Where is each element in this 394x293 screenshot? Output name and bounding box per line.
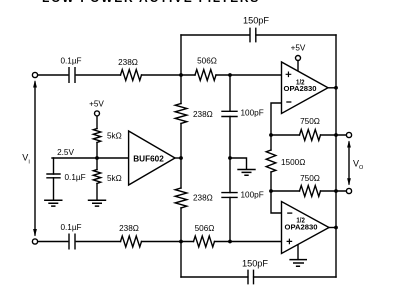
- svg-text:LOW POWER ACTIVE FILTERS: LOW POWER ACTIVE FILTERS: [42, 0, 260, 5]
- wire bottom rail: [181, 276, 336, 278]
- wire U2 inverting input: [271, 191, 282, 213]
- resistor 238 ohm vertical lower: [175, 188, 187, 208]
- junction lower feedback right: [334, 189, 338, 193]
- resistor 5k ohm upper: [93, 129, 100, 143]
- svg-text:150pF: 150pF: [243, 16, 269, 26]
- junction x181 bottom row: [179, 240, 183, 244]
- label U1 plus: [286, 72, 292, 78]
- svg-text:+5V: +5V: [291, 44, 306, 53]
- wire right output vertical x=336: [335, 35, 337, 277]
- svg-text:VI: VI: [22, 153, 30, 166]
- svg-text:OPA2830: OPA2830: [285, 223, 318, 232]
- wire 5k branch vertical: [96, 116, 98, 200]
- junction BUF602 output: [179, 156, 183, 160]
- terminal input bottom: [32, 239, 37, 244]
- resistor 750 ohm lower: [300, 186, 321, 197]
- wire upper feedback row: [271, 134, 346, 136]
- terminal input top: [32, 72, 37, 77]
- svg-text:238Ω: 238Ω: [118, 58, 138, 67]
- svg-text:BUF602: BUF602: [133, 154, 164, 164]
- capacitor C 0.1uF bottom: [69, 234, 75, 249]
- capacitor C 150pF bottom: [248, 270, 254, 283]
- resistor 238 ohm vertical upper: [175, 104, 187, 124]
- wire second ladder vertical x=230: [229, 75, 231, 242]
- capacitor C 150pF top: [250, 28, 256, 41]
- wire U2 ground stem: [297, 245, 299, 260]
- wire center node ground stub: [230, 158, 247, 169]
- op-amp U1 triangle: [282, 62, 329, 114]
- terminal +5V BUF602: [95, 111, 100, 116]
- junction 5k divider: [95, 156, 99, 160]
- wire U1 inverting feedback: [271, 103, 282, 135]
- label U2 minus: [287, 212, 292, 214]
- wire BUF602 output: [175, 157, 181, 159]
- resistor 1500 ohm: [266, 150, 276, 172]
- svg-text:2.5V: 2.5V: [57, 148, 74, 157]
- wire Vo span line: [348, 142, 350, 184]
- wire 0.1uF bypass vertical: [53, 158, 55, 200]
- terminal Vo lower: [346, 188, 351, 193]
- svg-text:OPA2830: OPA2830: [284, 84, 317, 93]
- junction U2 output: [334, 226, 338, 230]
- ground U2: [289, 260, 307, 267]
- resistor 750 ohm upper: [300, 130, 321, 141]
- svg-text:+5V: +5V: [89, 100, 104, 109]
- arrowhead Vi down: [33, 229, 37, 237]
- junction center node: [228, 156, 232, 160]
- svg-text:0.1µF: 0.1µF: [60, 223, 81, 232]
- junction x230 bottom row: [228, 240, 232, 244]
- svg-text:238Ω: 238Ω: [119, 224, 139, 233]
- svg-text:100pF: 100pF: [241, 190, 264, 199]
- svg-text:750Ω: 750Ω: [300, 174, 320, 183]
- svg-text:0.1µF: 0.1µF: [65, 173, 86, 182]
- wire U2 output: [329, 227, 336, 229]
- junction upper feedback left: [269, 133, 273, 137]
- wire 2.5V node row: [52, 157, 129, 159]
- svg-text:506Ω: 506Ω: [197, 57, 217, 66]
- junction x230 top row: [228, 73, 232, 77]
- resistor 238 ohm top: [121, 70, 142, 81]
- svg-text:1500Ω: 1500Ω: [281, 158, 305, 167]
- wire 1500 ohm leads: [270, 135, 272, 191]
- svg-text:506Ω: 506Ω: [195, 224, 215, 233]
- svg-text:0.1µF: 0.1µF: [60, 57, 81, 66]
- wire top rail: [181, 34, 336, 36]
- svg-text:VO: VO: [353, 159, 364, 172]
- capacitor C 100pF upper: [222, 111, 237, 116]
- ground center node: [237, 170, 255, 176]
- svg-text:5kΩ: 5kΩ: [107, 174, 122, 183]
- svg-text:5kΩ: 5kΩ: [107, 132, 122, 141]
- capacitor C 0.1uF bypass: [47, 174, 60, 178]
- svg-text:150pF: 150pF: [242, 259, 268, 269]
- ground under 0.1uF bypass: [44, 200, 62, 206]
- wire U1 output: [328, 87, 336, 89]
- svg-text:100pF: 100pF: [241, 109, 264, 118]
- wire left ladder vertical x=181: [180, 35, 182, 277]
- label U2 plus: [287, 239, 293, 245]
- capacitor C 100pF lower: [222, 193, 237, 198]
- svg-text:238Ω: 238Ω: [193, 194, 213, 203]
- svg-text:750Ω: 750Ω: [300, 117, 320, 126]
- terminal Vo upper: [346, 132, 351, 137]
- arrowhead Vo up: [347, 141, 351, 148]
- terminal +5V U1: [296, 56, 301, 61]
- junction lower feedback left: [269, 189, 273, 193]
- wire top input row: [38, 74, 282, 76]
- ground under 5k: [88, 200, 106, 206]
- junction U1 output: [334, 86, 338, 90]
- resistor 506 ohm bottom: [194, 236, 215, 247]
- wire lower feedback row: [271, 190, 346, 192]
- wire U1 supply pin: [297, 61, 299, 73]
- svg-text:238Ω: 238Ω: [193, 110, 213, 119]
- buffer U3 BUF602 triangle: [129, 131, 175, 185]
- junction x181 top row: [179, 73, 183, 77]
- capacitor C 0.1uF top: [69, 68, 75, 83]
- resistor 238 ohm bottom: [121, 236, 142, 247]
- resistor 506 ohm top: [195, 70, 216, 81]
- op-amp U2 triangle: [282, 202, 330, 254]
- wire bottom input row: [38, 241, 282, 243]
- junction upper feedback right: [334, 133, 338, 137]
- arrowhead Vi up: [33, 80, 37, 88]
- arrowhead Vo down: [347, 178, 351, 185]
- label U1 minus: [286, 101, 291, 103]
- resistor 5k ohm lower: [93, 170, 100, 184]
- wire Vi source line: [34, 82, 36, 235]
